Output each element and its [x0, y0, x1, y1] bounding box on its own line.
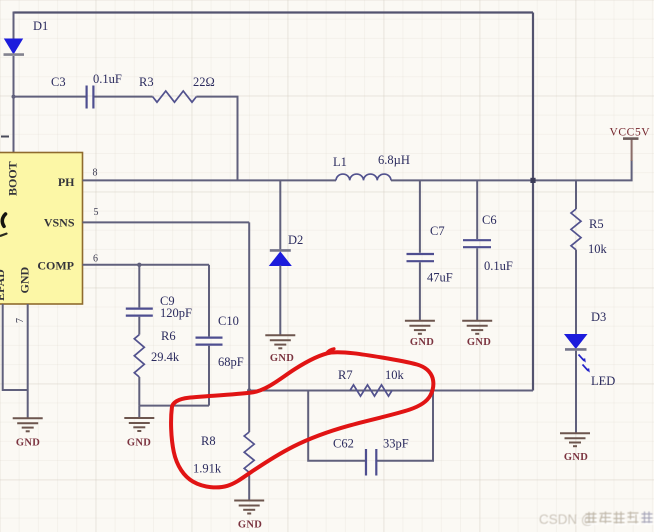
- label D3: [591, 310, 606, 324]
- wire C6 to ground: [476, 248, 478, 320]
- wire R3 to corner and down to PH line: [196, 97, 237, 181]
- diode D3 LED: [565, 335, 590, 373]
- IC U1 body: [0, 153, 83, 305]
- resistor R6: [134, 335, 144, 377]
- svg-text:33pF: 33pF: [383, 437, 409, 451]
- ground symbol for D3: [560, 433, 590, 446]
- svg-text:GND: GND: [564, 452, 588, 463]
- label R5: [589, 217, 604, 231]
- svg-text:GND: GND: [410, 337, 434, 348]
- wire R5 to D3: [575, 250, 577, 335]
- label C7 value 47uF: [427, 271, 453, 285]
- wire R5 column top: [575, 180, 577, 209]
- svg-text:1.91k: 1.91k: [193, 462, 222, 476]
- svg-text:R8: R8: [201, 434, 216, 448]
- svg-text:C62: C62: [333, 437, 354, 451]
- IC pin name COMP: [37, 259, 74, 273]
- ground symbol for compensation: [124, 418, 154, 431]
- wire C62 right leg: [377, 391, 433, 461]
- label C9: [160, 294, 175, 308]
- wire C6 column: [476, 180, 478, 239]
- capacitor C3: [87, 86, 94, 109]
- IC pin name EPAD (vertical, clipped): [0, 269, 7, 301]
- label C9 value 120pF: [160, 306, 192, 320]
- wire VSNS pin to corner: [83, 221, 250, 223]
- wire feedback rail to right bus: [249, 390, 533, 392]
- IC pin name GND (vertical): [18, 267, 32, 294]
- label GND (compensation): [127, 438, 151, 449]
- wire C9 to R6: [138, 317, 140, 335]
- diode D1: [4, 39, 25, 55]
- capacitor C9: [126, 309, 153, 316]
- svg-text:GND: GND: [270, 353, 294, 364]
- svg-text:5: 5: [94, 207, 99, 218]
- pin number 7 (rotated): [15, 318, 26, 323]
- label D1: [33, 19, 48, 33]
- wire BOOT node to C3: [14, 96, 86, 98]
- annotation red scribble loop: [171, 349, 433, 488]
- svg-text:GND: GND: [127, 438, 151, 449]
- pin number 8: [93, 168, 98, 179]
- wire D3 to ground: [575, 351, 577, 434]
- node output junction at x=533: [530, 178, 535, 183]
- svg-text:L1: L1: [333, 155, 347, 169]
- IC pin name VSNS: [44, 216, 75, 230]
- label C3 value 0.1uF: [93, 72, 122, 86]
- label VCC5V: [610, 127, 651, 139]
- capacitor C10: [196, 338, 223, 345]
- svg-text:29.4k: 29.4k: [151, 350, 180, 364]
- svg-text:R6: R6: [161, 329, 176, 343]
- wire D1 cathode to BOOT node: [13, 56, 15, 97]
- label L1: [333, 155, 347, 169]
- resistor R7: [350, 385, 392, 396]
- label C10 value 68pF: [218, 355, 244, 369]
- svg-text:0.1uF: 0.1uF: [93, 72, 122, 86]
- node BOOT junction: [12, 95, 16, 99]
- ground symbol for R8: [234, 501, 264, 514]
- svg-text:D3: D3: [591, 310, 606, 324]
- label C62 value 33pF: [383, 437, 409, 451]
- wire compensation bottom rail: [139, 405, 209, 407]
- ground symbol for IC: [13, 418, 43, 431]
- label R3: [139, 75, 154, 89]
- svg-text:GND: GND: [238, 520, 262, 531]
- svg-text:PH: PH: [58, 175, 75, 189]
- label GND (C6): [467, 337, 491, 348]
- label D2: [288, 233, 303, 247]
- label GND (C7): [410, 337, 434, 348]
- capacitor C62: [366, 449, 376, 476]
- svg-text:VCC5V: VCC5V: [610, 127, 651, 139]
- wire R8 to ground: [248, 473, 250, 501]
- label L1 value 6.8uH: [378, 153, 410, 167]
- svg-text:EPAD: EPAD: [0, 269, 7, 301]
- wire IC GND pin column: [27, 304, 29, 418]
- wire C7 to ground: [419, 262, 421, 321]
- label R6: [161, 329, 176, 343]
- label C62: [333, 437, 354, 451]
- watermark CSDN: [539, 512, 596, 528]
- resistor R3: [153, 91, 197, 102]
- label R8: [201, 434, 216, 448]
- svg-text:C10: C10: [218, 314, 239, 328]
- label R3 value 22ohm: [193, 75, 215, 89]
- resistor R8: [244, 432, 254, 472]
- svg-text:R5: R5: [589, 217, 604, 231]
- svg-text:BOOT: BOOT: [6, 161, 20, 196]
- wire PH pin to L1: [83, 179, 337, 181]
- node COMP junction at C9: [137, 263, 141, 267]
- wire C10 branch: [208, 265, 210, 337]
- svg-text:68pF: 68pF: [218, 355, 244, 369]
- svg-text:C7: C7: [430, 224, 445, 238]
- svg-text:7: 7: [15, 318, 26, 323]
- resistor R5: [571, 209, 581, 250]
- wire C9 branch top: [138, 265, 140, 308]
- pin number 6: [93, 254, 98, 265]
- pin number 5: [94, 207, 99, 218]
- capacitor C7: [407, 254, 435, 261]
- wire C7 column: [419, 180, 421, 252]
- svg-text:47uF: 47uF: [427, 271, 453, 285]
- svg-text:LED: LED: [591, 374, 615, 388]
- label C6 value 0.1uF: [484, 259, 513, 273]
- wire C10 to bottom rail: [208, 346, 210, 406]
- wire bottom rail to ground: [138, 406, 140, 418]
- svg-text:0.1uF: 0.1uF: [484, 259, 513, 273]
- wire C62 left leg: [308, 391, 365, 461]
- label R7: [338, 368, 353, 382]
- svg-text:D2: D2: [288, 233, 303, 247]
- label R5 value 10k: [588, 242, 608, 256]
- wire R6 to bottom rail: [138, 377, 140, 406]
- inductor L1: [336, 174, 391, 180]
- power symbol VCC5V bar: [623, 137, 639, 140]
- wire COMP pin to C10 corner: [83, 264, 210, 266]
- label GND (R8): [238, 520, 262, 531]
- ground symbol for C7: [405, 321, 435, 334]
- svg-text:COMP: COMP: [37, 259, 74, 273]
- ground symbol for D2: [265, 335, 295, 348]
- svg-text:22Ω: 22Ω: [193, 75, 215, 89]
- ground symbol for C6: [462, 321, 492, 334]
- wire D1 anode column: [13, 12, 15, 40]
- svg-text:8: 8: [93, 168, 98, 179]
- svg-text:GND: GND: [18, 267, 32, 294]
- svg-text:10k: 10k: [588, 242, 608, 256]
- label C6: [482, 213, 497, 227]
- svg-text:GND: GND: [16, 438, 40, 449]
- diode D2: [270, 250, 291, 265]
- svg-text:GND: GND: [467, 337, 491, 348]
- svg-text:6.8µH: 6.8µH: [378, 153, 410, 167]
- IC pin name PH: [58, 175, 75, 189]
- svg-text:10k: 10k: [385, 368, 405, 382]
- wire VSNS vertical down to feedback node: [248, 222, 250, 390]
- svg-text:R3: R3: [139, 75, 154, 89]
- svg-text:D1: D1: [33, 19, 48, 33]
- pin number 1 (rotated dash): [1, 136, 9, 138]
- label GND (D2): [270, 353, 294, 364]
- annotation black pen mark: [1, 214, 7, 236]
- svg-text:C3: C3: [51, 75, 66, 89]
- IC pin name BOOT: [6, 161, 20, 196]
- node feedback junction: [247, 388, 251, 392]
- svg-text:VSNS: VSNS: [44, 216, 75, 230]
- label R7 value 10k: [385, 368, 405, 382]
- wire D2 column: [279, 180, 281, 250]
- wire D2 anode to ground: [279, 266, 281, 336]
- label C10: [218, 314, 239, 328]
- label LED: [591, 374, 615, 388]
- wire right vertical bus x=533: [532, 13, 534, 391]
- svg-text:C6: C6: [482, 213, 497, 227]
- wire top bus from D1 to right vertical: [14, 11, 534, 13]
- label R6 value 29.4k: [151, 350, 180, 364]
- wire BOOT node down to IC pin 1: [13, 97, 15, 153]
- label C7: [430, 224, 445, 238]
- label R8 value 1.91k: [193, 462, 222, 476]
- capacitor C6: [463, 240, 491, 247]
- svg-text:R7: R7: [338, 368, 353, 382]
- label C3: [51, 75, 66, 89]
- wire EPAD pin down and across: [3, 304, 28, 390]
- svg-text:120pF: 120pF: [160, 306, 192, 320]
- svg-text:6: 6: [93, 254, 98, 265]
- wire L1 to VCC corner (output net): [391, 140, 632, 181]
- wire R8 column: [248, 391, 250, 433]
- label GND (IC): [16, 438, 40, 449]
- wire C3 to R3: [94, 96, 152, 98]
- label GND (D3): [564, 452, 588, 463]
